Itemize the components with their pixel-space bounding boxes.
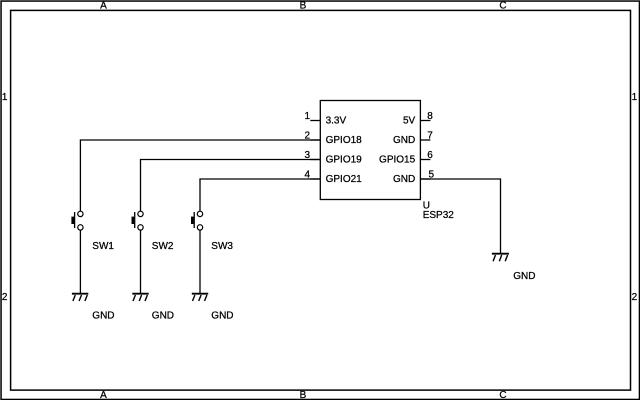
svg-text:C: C xyxy=(499,390,506,400)
svg-text:ESP32: ESP32 xyxy=(423,210,455,221)
pin 6 GPIO15 xyxy=(379,150,433,166)
svg-text:7: 7 xyxy=(427,130,433,141)
svg-text:GND: GND xyxy=(393,135,415,146)
svg-text:1: 1 xyxy=(304,111,310,122)
svg-text:2: 2 xyxy=(2,292,8,303)
wire SW2 to ground xyxy=(140,230,142,293)
svg-text:A: A xyxy=(100,1,107,12)
svg-text:GND: GND xyxy=(92,311,114,322)
svg-text:B: B xyxy=(300,390,307,400)
switch SW1 xyxy=(71,211,114,252)
svg-text:A: A xyxy=(100,390,107,400)
svg-text:SW1: SW1 xyxy=(92,241,114,252)
pin 2 GPIO18 xyxy=(304,130,362,146)
pin 7 GND xyxy=(393,130,433,146)
svg-text:GND: GND xyxy=(211,311,233,322)
svg-text:8: 8 xyxy=(427,111,433,122)
svg-text:GPIO19: GPIO19 xyxy=(326,155,363,166)
ground GND (SW3) xyxy=(192,294,234,322)
svg-text:1: 1 xyxy=(2,92,8,103)
svg-text:C: C xyxy=(499,1,506,12)
svg-text:GND: GND xyxy=(513,271,535,282)
pin 1 3.3V xyxy=(304,111,346,127)
wire pin3 to SW2 xyxy=(141,160,321,212)
ground GND (SW2) xyxy=(132,294,174,322)
svg-text:GND: GND xyxy=(393,174,415,185)
IC U ESP32 body xyxy=(320,101,420,200)
pin 4 GPIO21 xyxy=(304,169,362,185)
switch SW3 xyxy=(191,211,233,252)
svg-text:2: 2 xyxy=(632,292,638,303)
pin 5 GND xyxy=(393,169,435,185)
wire SW3 to ground xyxy=(199,230,201,293)
switch SW2 xyxy=(132,211,174,252)
svg-text:B: B xyxy=(300,1,307,12)
wire pin4 to SW3 xyxy=(200,179,320,211)
pin 3 GPIO19 xyxy=(304,150,362,166)
svg-text:5V: 5V xyxy=(403,116,416,127)
svg-text:GPIO15: GPIO15 xyxy=(379,155,416,166)
svg-text:GPIO18: GPIO18 xyxy=(326,135,363,146)
svg-text:3.3V: 3.3V xyxy=(326,116,347,127)
svg-text:SW2: SW2 xyxy=(152,241,174,252)
pin 8 5V xyxy=(403,111,433,127)
svg-text:6: 6 xyxy=(427,150,433,161)
wire SW1 to ground xyxy=(79,230,81,293)
ground GND (pin 5) xyxy=(492,254,536,282)
svg-text:SW3: SW3 xyxy=(211,241,233,252)
value ESP32 xyxy=(423,210,455,221)
svg-text:1: 1 xyxy=(632,92,638,103)
svg-text:GND: GND xyxy=(152,311,174,322)
ground GND (SW1) xyxy=(72,294,115,322)
wire pin2 to SW1 xyxy=(80,140,320,211)
reference designator U xyxy=(423,200,430,211)
svg-text:GPIO21: GPIO21 xyxy=(326,174,363,185)
wire pin5 to ground xyxy=(420,179,500,253)
